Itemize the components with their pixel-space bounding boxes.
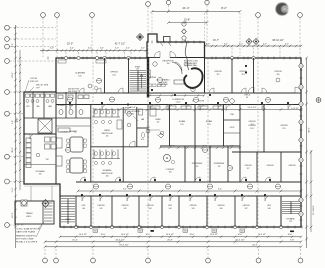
bottom keynote boxes: [93, 229, 294, 233]
svg-text:6'-0": 6'-0": [224, 43, 228, 45]
left wing entry X-box: [38, 119, 52, 133]
svg-text:10'-4 1/2": 10'-4 1/2": [121, 234, 129, 236]
dashed grid line through building x=93: [92, 58, 94, 227]
grid bubble left 6 at y=113.7: [5, 111, 24, 116]
grid bubble bottom 3 at x=93: [91, 249, 96, 263]
building outer wall outline: [24, 34, 301, 227]
svg-text:W4: W4: [94, 231, 97, 233]
grid bubble left 3 at y=46.6: [5, 44, 56, 49]
svg-text:97'-3 1/2": 97'-3 1/2": [119, 244, 128, 246]
svg-text:6'-1": 6'-1": [230, 146, 234, 148]
dashed grid line through building x=148: [147, 58, 149, 227]
grid bubble left 4 at y=61: [5, 59, 56, 64]
svg-text:12'-11 1/2": 12'-11 1/2": [313, 205, 315, 215]
svg-text:FUR OUT: FUR OUT: [30, 81, 39, 83]
svg-text:112: 112: [216, 74, 219, 76]
top dimension line middle protrusion: [151, 6, 242, 56]
svg-text:102: 102: [78, 75, 81, 77]
in-room dimension line: [159, 146, 241, 149]
dashed grid line through building x=208: [207, 58, 209, 227]
svg-text:W4: W4: [139, 231, 142, 233]
top dimension line left section: [40, 42, 148, 57]
upper corridor label: [172, 99, 204, 104]
svg-text:124: 124: [251, 124, 254, 126]
lobby corridor dimension line: [147, 94, 205, 96]
svg-text:64'-2": 64'-2": [252, 244, 258, 246]
svg-text:16'-7": 16'-7": [213, 39, 219, 42]
svg-text:INTERVIEW: INTERVIEW: [192, 163, 203, 165]
interview room labels: [192, 121, 297, 170]
grid bubble left 5 at y=92: [5, 90, 24, 95]
svg-text:14'-0 1/2": 14'-0 1/2": [247, 107, 256, 109]
window mullion ticks bottom wall: [64, 226, 302, 229]
svg-text:31'-3": 31'-3": [72, 239, 78, 241]
right vertical dimension line inner: [310, 150, 315, 232]
grid bubble top 5 at x=258: [256, 13, 261, 57]
top dimension line right section: [204, 39, 302, 57]
svg-text:41'-7 1/2": 41'-7 1/2": [115, 42, 126, 45]
upper stair with treads: [130, 66, 147, 92]
svg-text:21'-4": 21'-4": [182, 6, 189, 10]
svg-text:OFFICE: OFFICE: [214, 71, 222, 73]
svg-text:ME: ME: [37, 106, 41, 108]
svg-text:OFF: OFF: [168, 205, 173, 207]
svg-text:100: 100: [167, 63, 170, 65]
detached trash enclosure: [15, 201, 54, 224]
svg-text:STOR: STOR: [230, 127, 235, 129]
staff area marks: [148, 108, 164, 135]
svg-text:9'-8": 9'-8": [12, 120, 14, 124]
svg-text:WOMEN: WOMEN: [58, 105, 65, 107]
grid bubble top M1: [166, 0, 170, 11]
svg-text:GYP. BD.: GYP. BD.: [127, 114, 135, 116]
misc center annotations: [127, 110, 164, 138]
svg-text:8'-2": 8'-2": [12, 43, 14, 47]
svg-text:135: 135: [39, 174, 42, 176]
grid bubble left 8 at y=181.5: [5, 179, 24, 184]
svg-text:RESTROOM: RESTROOM: [102, 133, 113, 135]
svg-text:6'-0": 6'-0": [126, 48, 130, 50]
svg-text:103: 103: [136, 68, 139, 70]
svg-text:10'-4 1/2": 10'-4 1/2": [166, 234, 174, 236]
svg-text:RM: RM: [230, 114, 233, 116]
svg-text:OFFICE: OFFICE: [280, 125, 288, 127]
restroom alcove door arcs: [125, 104, 135, 147]
bottom dimension row 1: [59, 234, 302, 238]
svg-text:LAUNDRY: LAUNDRY: [69, 130, 78, 133]
svg-text:38'-0": 38'-0": [12, 147, 14, 153]
middle band room partitions: [91, 105, 301, 183]
lower corridor south wall: [60, 195, 301, 197]
svg-text:6'-0": 6'-0": [50, 48, 54, 50]
grid bubble top 1 at x=43: [41, 13, 46, 57]
conference round table: [163, 154, 175, 173]
svg-text:125: 125: [157, 121, 160, 123]
grid bubble top 3 at x=92: [90, 13, 95, 57]
svg-text:6'-0": 6'-0": [70, 48, 74, 50]
grid bubble bottom 6 at x=258.5: [256, 249, 261, 263]
svg-text:25'-9": 25'-9": [167, 239, 173, 241]
svg-text:116: 116: [276, 74, 279, 76]
svg-text:SCREEN WALL: SCREEN WALL: [185, 64, 198, 67]
restroom fixtures cluster: [92, 108, 145, 178]
svg-text:6'-0": 6'-0": [100, 48, 104, 50]
grid bubble bottom 7 at x=300.5: [298, 249, 303, 263]
svg-text:GYP BD: GYP BD: [30, 78, 38, 80]
grid bubble left 2 at y=39: [5, 37, 56, 42]
wing restroom fixtures: [26, 94, 90, 133]
bottom dimension row 3: [44, 244, 303, 248]
svg-text:OFFICE: OFFICE: [217, 205, 225, 207]
grid bubble top 4 at x=148: [146, 2, 151, 57]
svg-text:7'-8": 7'-8": [290, 239, 295, 241]
svg-text:RESTROOM: RESTROOM: [102, 173, 113, 175]
svg-text:131: 131: [106, 136, 109, 138]
svg-text:OFFICE: OFFICE: [242, 205, 250, 207]
left wing leader notes: [25, 78, 49, 93]
svg-text:120: 120: [180, 124, 183, 126]
svg-text:OFFICE: OFFICE: [274, 71, 282, 73]
right diamond tags: [246, 39, 259, 45]
svg-text:CLASSRM: CLASSRM: [75, 72, 85, 75]
circled door and window tags: [66, 64, 304, 216]
svg-text:STO: STO: [141, 139, 145, 141]
svg-text:11'-4": 11'-4": [12, 187, 14, 192]
svg-text:OFFICE: OFFICE: [248, 121, 256, 123]
left vertical dimension line outer: [12, 25, 17, 248]
svg-text:OFFICE: OFFICE: [266, 165, 274, 167]
window mullion ticks right wall: [300, 64, 303, 220]
svg-text:140: 140: [82, 208, 85, 210]
svg-text:10'-8": 10'-8": [184, 19, 190, 22]
svg-text:125: 125: [282, 128, 285, 130]
svg-text:24'-6": 24'-6": [12, 72, 14, 78]
svg-text:4: 4: [193, 89, 194, 91]
svg-text:OFFICE: OFFICE: [110, 72, 118, 74]
svg-text:OFFICE: OFFICE: [244, 165, 252, 167]
svg-text:144: 144: [169, 208, 172, 210]
svg-text:38'-10 1/2": 38'-10 1/2": [272, 39, 284, 42]
svg-text:TRASH: TRASH: [26, 212, 33, 215]
svg-text:6'-0": 6'-0": [239, 43, 243, 45]
exam room counters and arcs: [150, 105, 240, 134]
top secondary dimension row: [167, 19, 208, 24]
svg-text:16'-2": 16'-2": [12, 212, 14, 218]
svg-text:134: 134: [46, 159, 49, 161]
lower band office partitions: [76, 196, 281, 227]
left wing room labels: [26, 105, 52, 161]
svg-text:WOMENS: WOMENS: [103, 170, 112, 172]
svg-text:12'-4": 12'-4": [130, 107, 136, 109]
svg-text:10'-0": 10'-0": [288, 234, 293, 236]
right room annotations: [229, 95, 299, 111]
svg-text:132: 132: [196, 166, 199, 168]
wing restroom partitions: [56, 92, 91, 126]
svg-text:ENCL: ENCL: [26, 216, 31, 218]
detached structure tags: [21, 200, 49, 208]
svg-text:131: 131: [218, 166, 221, 168]
svg-text:SEE STRUCT: SEE STRUCT: [68, 91, 79, 93]
vestibule interior walls: [149, 37, 205, 66]
svg-text:JAN: JAN: [48, 105, 52, 108]
door swing arcs: [70, 88, 293, 201]
svg-text:6'-0": 6'-0": [141, 48, 145, 50]
exam room labels: [179, 114, 288, 130]
svg-text:OFFICE: OFFICE: [146, 205, 154, 207]
left vertical dimension line inner: [17, 50, 21, 190]
southeast stair with treads: [281, 196, 300, 227]
svg-text:EXAM: EXAM: [206, 120, 212, 123]
svg-text:14'-6": 14'-6": [170, 146, 175, 148]
window mullion ticks top wall: [48, 41, 296, 60]
svg-text:10'-0": 10'-0": [146, 234, 151, 236]
svg-text:6'-0": 6'-0": [115, 48, 119, 50]
entry diamond tag: [137, 34, 144, 41]
svg-text:9'-6": 9'-6": [17, 118, 19, 123]
svg-text:JAN: JAN: [141, 118, 145, 121]
upper corridor north wall: [56, 92, 301, 94]
svg-text:PLAN 4A10: PLAN 4A10: [158, 83, 167, 86]
svg-text:STAFF: STAFF: [155, 118, 161, 121]
svg-text:10'-4 1/2": 10'-4 1/2": [79, 234, 87, 236]
svg-text:GATE SITE PLANS: GATE SITE PLANS: [16, 231, 36, 234]
svg-text:10'-4 1/2": 10'-4 1/2": [210, 234, 218, 236]
dimension line under upper corridor: [94, 107, 303, 111]
svg-text:6'-0": 6'-0": [206, 43, 210, 45]
svg-text:146: 146: [220, 208, 223, 210]
svg-text:133: 133: [169, 172, 172, 174]
bottom dimension row 2: [44, 239, 303, 243]
svg-text:WO: WO: [26, 106, 30, 108]
svg-text:OFFICE: OFFICE: [288, 165, 296, 167]
svg-text:STAIR: STAIR: [65, 218, 71, 221]
svg-text:104: 104: [112, 74, 115, 76]
grid bubble left 1 at y=27.7: [5, 25, 56, 30]
svg-text:W/ PTCHD CRSE: W/ PTCHD CRSE: [16, 239, 34, 241]
svg-text:INTERVIEW: INTERVIEW: [214, 163, 225, 165]
svg-text:STORAGE: STORAGE: [286, 218, 295, 221]
svg-text:10'-0": 10'-0": [238, 234, 243, 236]
dashed grid line through building x=258: [257, 58, 259, 227]
svg-text:10'-4 1/2": 10'-4 1/2": [258, 234, 266, 236]
svg-text:145: 145: [192, 208, 195, 210]
svg-text:T: T: [156, 135, 158, 137]
dark circular stamp seal top right: [276, 3, 289, 16]
right vertical dimension line outer: [305, 57, 310, 248]
svg-text:6'-0": 6'-0": [88, 48, 92, 50]
upper band room partitions: [105, 42, 254, 93]
svg-text:30'-6 1/2": 30'-6 1/2": [235, 239, 244, 241]
svg-text:32'-0": 32'-0": [67, 42, 73, 45]
partition junction circles on outer walls: [64, 56, 282, 228]
svg-text:147: 147: [245, 208, 248, 210]
grid bubble bottom 2 at x=56: [54, 249, 59, 263]
svg-text:W4: W4: [184, 231, 187, 233]
svg-text:TYP: TYP: [36, 87, 40, 89]
grid bubble top 6 at x=300: [298, 13, 303, 57]
upper corridor south wall: [56, 104, 301, 106]
left wing locker column: [26, 138, 31, 168]
left wing interior walls: [24, 92, 56, 184]
svg-text:127: 127: [247, 168, 250, 170]
svg-text:38'-0": 38'-0": [308, 127, 310, 133]
svg-text:W4: W4: [213, 231, 216, 233]
svg-text:9'-4": 9'-4": [123, 189, 127, 191]
svg-text:141: 141: [100, 208, 103, 210]
lounge tables: [56, 132, 86, 174]
svg-text:DBL 36" DRS: DBL 36" DRS: [36, 85, 49, 87]
svg-text:18'-4 1/2": 18'-4 1/2": [115, 239, 124, 241]
door leaf blips: [69, 65, 289, 196]
svg-text:W4: W4: [241, 231, 244, 233]
svg-text:6'-0": 6'-0": [263, 43, 267, 45]
northeast room door arcs: [245, 72, 301, 93]
svg-text:148: 148: [268, 208, 271, 210]
reception open area symbols: [148, 62, 195, 92]
lower band office labels: [82, 205, 272, 210]
grid bubble left 9 at y=225: [5, 223, 24, 228]
svg-text:EXAM: EXAM: [179, 120, 185, 123]
svg-text:PAINTED CMU/PTD: PAINTED CMU/PTD: [16, 235, 36, 238]
freeform revision cloud: [184, 40, 202, 88]
grid bubble bottom 1 at x=45: [43, 249, 48, 263]
svg-text:150: 150: [289, 221, 292, 223]
grid bubble bottom 4 at x=148: [146, 249, 151, 263]
svg-text:114: 114: [241, 74, 244, 76]
left wing stall grid: [24, 134, 57, 176]
svg-text:ROYAL Z & SLOPE B: ROYAL Z & SLOPE B: [16, 241, 38, 244]
grid bubble right at y=100: [316, 98, 321, 103]
svg-text:MENS: MENS: [104, 130, 110, 132]
grid bubble top M2: [205, 0, 209, 46]
svg-text:IN: IN: [246, 97, 248, 99]
thick lobby-stair wall: [147, 57, 149, 98]
svg-text:OFFICE: OFFICE: [121, 205, 129, 207]
lobby tag cluster: [182, 22, 187, 42]
classroom scatter marks: [58, 60, 280, 90]
lower corridor north wall: [76, 181, 301, 183]
svg-text:10'-0": 10'-0": [101, 234, 106, 236]
svg-text:OFFICE: OFFICE: [189, 205, 197, 207]
svg-text:130: 130: [106, 176, 109, 178]
svg-text:6'-0": 6'-0": [285, 43, 289, 45]
grid bubble top 2 at x=57: [55, 13, 60, 57]
lobby note texts: [156, 61, 199, 87]
svg-text:STAIR: STAIR: [135, 66, 141, 69]
svg-text:124: 124: [250, 128, 253, 130]
svg-text:CONC. SLAB W/ PITCH: CONC. SLAB W/ PITCH: [16, 228, 40, 231]
svg-text:C100: C100: [176, 102, 181, 104]
svg-text:OFFICE: OFFICE: [97, 205, 105, 207]
svg-text:WAITING: WAITING: [148, 76, 157, 79]
bottom left note block: [16, 222, 44, 244]
svg-text:9'-4": 9'-4": [218, 189, 222, 191]
svg-text:142: 142: [124, 208, 127, 210]
svg-text:STORAGE: STORAGE: [35, 170, 45, 173]
dimension line in lower corridor: [77, 189, 303, 193]
grid bubble bottom 5 at x=208: [206, 249, 211, 263]
site connection lines: [24, 186, 60, 201]
svg-text:4'-10 1/2": 4'-10 1/2": [291, 108, 299, 110]
upper band room labels: [68, 71, 282, 93]
svg-text:8'-2": 8'-2": [221, 6, 227, 10]
svg-text:OFF: OFF: [82, 205, 87, 207]
svg-text:143: 143: [149, 208, 152, 210]
svg-text:OFF: OFF: [267, 205, 272, 207]
southwest stair with treads: [61, 199, 75, 225]
grid bubble left 7 at y=156.7: [5, 154, 24, 159]
svg-text:10'-0": 10'-0": [190, 234, 195, 236]
